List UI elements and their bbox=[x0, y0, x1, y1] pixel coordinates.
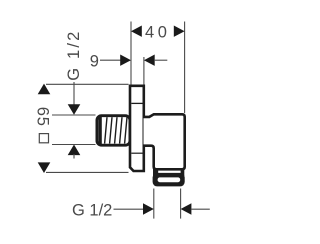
svg-text:G 1/2: G 1/2 bbox=[72, 201, 112, 219]
dimension 9: left leader with arrow bbox=[100, 59, 122, 61]
escutcheon flange (side view) bbox=[130, 86, 144, 171]
square symbol of 65 label bbox=[39, 134, 48, 143]
extension line outlet left (x=153.8) bbox=[153, 189, 155, 219]
extension line left (front face of escutcheon, x=131) bbox=[130, 22, 132, 86]
outlet collar bbox=[153, 173, 185, 187]
dimension G1/2: top arrow (down) bbox=[68, 104, 81, 115]
collar white slot bbox=[158, 177, 181, 182]
dimension G1/2: bottom arrow (up) bbox=[68, 145, 81, 156]
extension line wall plane (x=143.9) bbox=[143, 57, 145, 86]
thread hatch lines bbox=[105, 117, 107, 143]
extension line outlet right (x=180.6) bbox=[180, 189, 182, 219]
white slot of waist groove bbox=[158, 170, 180, 173]
extension line thread top (y=115) bbox=[52, 114, 96, 116]
dimension G1/2 bottom: left leader with arrow bbox=[114, 208, 144, 210]
dimension 9: right arrow with tail bbox=[144, 55, 155, 66]
flange internal line top bbox=[131, 102, 142, 104]
svg-text:40: 40 bbox=[145, 24, 171, 42]
dimension G1/2: bottom tail bbox=[73, 154, 75, 159]
elbow body bbox=[144, 114, 185, 169]
waist between body and collar (dark sides) bbox=[153, 167, 184, 177]
threaded nipple G1/2 bbox=[97, 116, 130, 146]
extension line flange bottom (y=172.4) bbox=[46, 171, 129, 173]
svg-text:65: 65 bbox=[34, 107, 52, 127]
extension line right (body right edge, x=184.6) bbox=[184, 22, 186, 114]
dimension G1/2 bottom: right arrow with tail bbox=[181, 203, 192, 214]
dimension G1/2: dim line from text down bbox=[73, 82, 75, 106]
dimension 40: arrow right bbox=[174, 26, 185, 37]
flange internal line bottom bbox=[131, 152, 142, 154]
dimension 65: top arrow (up) bbox=[38, 84, 51, 95]
extension line flange top (y=84.3) bbox=[46, 83, 129, 85]
extension line thread bottom (y=144.5) bbox=[52, 144, 96, 146]
dimension 40: arrow left bbox=[131, 26, 142, 37]
svg-text:G 1/2: G 1/2 bbox=[65, 29, 83, 80]
svg-text:9: 9 bbox=[90, 52, 99, 70]
dimension 65: bottom arrow (down) bbox=[38, 162, 51, 173]
